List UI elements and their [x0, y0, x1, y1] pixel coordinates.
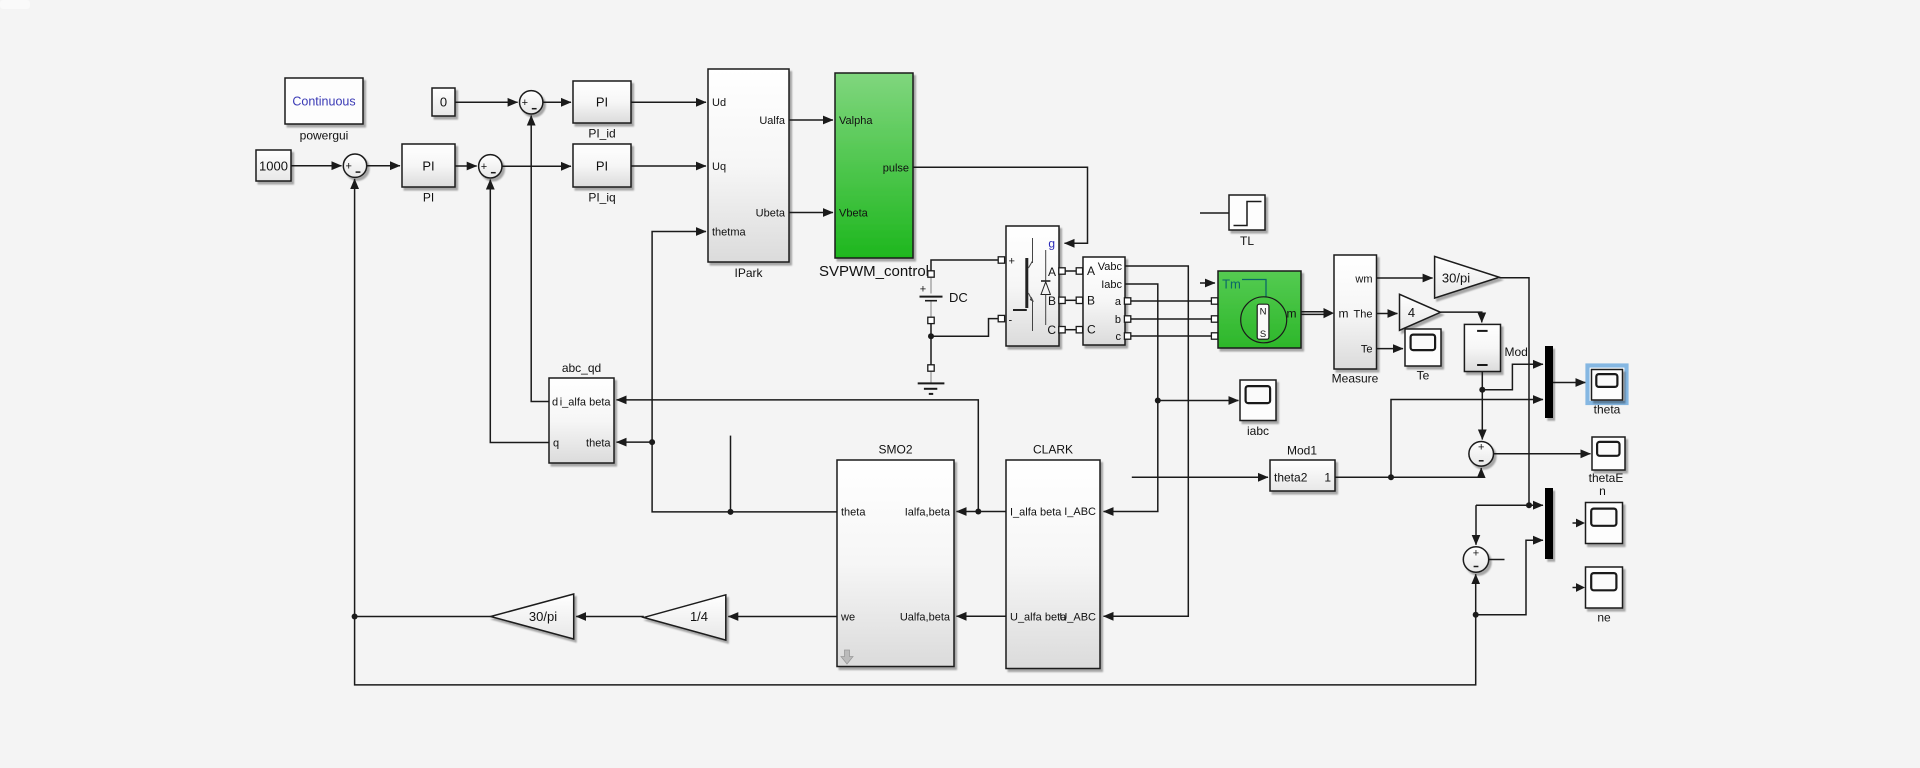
- wire SMO2 we to 1/4 gain: [728, 616, 837, 618]
- wire PI_id to IPark Ud: [631, 101, 706, 103]
- node Ialfa junction: [975, 509, 981, 515]
- constant block 0: [432, 88, 455, 116]
- PI block (speed): [402, 144, 455, 205]
- node ne feedback junction: [1473, 612, 1479, 618]
- svg-text:Valpha: Valpha: [839, 115, 873, 127]
- svg-text:0: 0: [440, 95, 447, 110]
- wire d feedback to id sum: [531, 116, 549, 402]
- scope thetaEn scope: [1592, 437, 1625, 470]
- port pad inverter B port: [1059, 297, 1065, 303]
- wire theta sum to thetaEn scope: [1494, 453, 1591, 455]
- svg-text:wm: wm: [1354, 274, 1372, 286]
- svg-text:1000: 1000: [259, 159, 288, 174]
- wire ne feedback to mux2 input2: [1476, 540, 1543, 615]
- svg-text:I_ABC: I_ABC: [1064, 506, 1096, 518]
- svg-text:30/pi: 30/pi: [1442, 270, 1470, 285]
- svg-text:+: +: [481, 161, 487, 173]
- svg-text:B: B: [1048, 294, 1056, 308]
- svg-text:C: C: [1047, 323, 1056, 337]
- wire n net to speed sum plus: [1475, 505, 1477, 545]
- svg-text:Continuous: Continuous: [292, 95, 355, 109]
- wire Tm input stub: [1200, 282, 1215, 284]
- wire DC plus to inverter plus: [931, 260, 998, 271]
- Measure block: [1332, 255, 1379, 386]
- wire SMO2 theta to IPark thetma: [652, 232, 837, 512]
- svg-text:1: 1: [1324, 471, 1331, 485]
- svg-text:Ialfa,beta: Ialfa,beta: [905, 507, 951, 519]
- svg-text:PI_id: PI_id: [588, 127, 615, 141]
- svg-text:-: -: [1009, 315, 1013, 327]
- wire 30/pi output down: [1499, 278, 1529, 504]
- wire IPark Ualfa to Valpha: [789, 119, 833, 121]
- node speed feedback junction: [352, 614, 358, 620]
- wire Mod output to theta sum: [1481, 372, 1483, 440]
- svg-text:theta: theta: [841, 507, 866, 519]
- svg-text:m: m: [1287, 307, 1297, 321]
- SMO2 observer block: [837, 443, 954, 667]
- svg-text:Ubeta: Ubeta: [756, 208, 786, 220]
- n scope floating input arrow: [1573, 522, 1577, 524]
- svg-text:CLARK: CLARK: [1033, 443, 1073, 457]
- gain 30/pi rpm: [1435, 256, 1500, 298]
- wire speed sum to PI: [367, 165, 400, 167]
- abc_qd block: [549, 361, 614, 463]
- port pad measurement C port: [1076, 327, 1082, 333]
- svg-text:+: +: [1009, 256, 1015, 268]
- PMSM motor block (green): [1218, 271, 1301, 348]
- svg-text:i_alfa beta: i_alfa beta: [560, 397, 612, 409]
- port pad inverter A port: [1059, 268, 1065, 274]
- node 30/pi junction: [1526, 502, 1532, 508]
- wire inverter C to measurement C: [1065, 329, 1076, 331]
- node theta junction: [649, 439, 655, 445]
- wire CLARK Ualfa to SMO2: [957, 615, 1007, 617]
- scope theta scope: [1592, 370, 1623, 417]
- svg-text:Ualfa: Ualfa: [759, 115, 786, 127]
- wire Iabc to CLARK I_ABC: [1104, 284, 1158, 512]
- wire phase c wire: [1131, 335, 1211, 337]
- svg-text:m: m: [1339, 307, 1349, 321]
- svg-text:The: The: [1354, 309, 1373, 321]
- svg-text:we: we: [840, 611, 855, 623]
- wire IPark Ubeta to Vbeta: [789, 212, 833, 214]
- svg-text:a: a: [1115, 296, 1122, 308]
- Mod block: [1464, 324, 1527, 371]
- IGBT/diode icon: [1013, 238, 1050, 331]
- svg-text:DC: DC: [949, 290, 968, 305]
- wire 1/4 to 30/pi gain: [576, 616, 644, 618]
- svg-text:c: c: [1116, 331, 1122, 343]
- svg-text:thetaE: thetaE: [1589, 471, 1624, 485]
- wire Mod1 input (dangling): [1132, 476, 1268, 478]
- svg-text:PI: PI: [596, 95, 608, 110]
- node Mod output junction: [1479, 387, 1485, 393]
- wire ne feedback up to speed sum minus: [1475, 574, 1477, 615]
- svg-text:PI: PI: [596, 159, 608, 174]
- node Iabc branch junction: [1155, 398, 1161, 404]
- wire pulse to gate g: [913, 167, 1088, 243]
- svg-text:theta2: theta2: [1274, 471, 1308, 485]
- svg-text:Measure: Measure: [1332, 372, 1379, 386]
- sum junction id error sum: [520, 91, 543, 114]
- port pad DC plus terminal: [928, 271, 934, 277]
- svg-text:Ud: Ud: [712, 97, 726, 109]
- ground symbol: [918, 371, 945, 394]
- wire speed feedback up to speed sum: [354, 179, 356, 617]
- wire Mod1 output to theta sum minus: [1335, 468, 1481, 477]
- CLARK transform block: [1006, 443, 1100, 669]
- svg-text:thetma: thetma: [712, 227, 747, 239]
- gain 1/4 gain: [644, 595, 726, 640]
- three-phase V-I measurement block: [1083, 257, 1125, 345]
- wire PI to iq sum: [455, 165, 477, 167]
- sum junction iq error sum: [479, 155, 502, 178]
- wire DC minus to inverter minus: [931, 319, 998, 337]
- wire theta stub (dangling): [730, 436, 732, 512]
- port pad motor B port: [1211, 316, 1217, 322]
- svg-text:N: N: [1260, 307, 1267, 318]
- svg-text:Mod1: Mod1: [1287, 444, 1317, 458]
- Mod1 block: [1270, 444, 1335, 492]
- svg-text:PI: PI: [423, 191, 434, 205]
- svg-text:iabc: iabc: [1247, 424, 1269, 438]
- svg-text:+: +: [522, 97, 528, 109]
- sum junction speed error sum: [343, 154, 366, 177]
- svg-text:C: C: [1087, 323, 1096, 337]
- wire TL output stub: [1200, 212, 1229, 214]
- wire Vabc to CLARK U_ABC: [1104, 266, 1189, 616]
- port pad inverter + port: [998, 257, 1004, 263]
- svg-text:Ualfa,beta: Ualfa,beta: [900, 611, 951, 623]
- wire Mod branch to mux1 input1: [1482, 364, 1543, 390]
- wire PI_iq to IPark Uq: [631, 165, 706, 167]
- wire iq sum to PI_iq: [502, 165, 571, 167]
- PI_id block: [573, 81, 631, 141]
- port pad inverter - port: [998, 315, 1004, 321]
- wire speed sum output stub: [1489, 559, 1505, 561]
- wire 0 to id sum: [455, 101, 518, 103]
- wire Te to Te scope: [1377, 348, 1404, 350]
- wire q feedback to iq sum: [490, 180, 549, 443]
- wire Iabc branch to iabc scope: [1158, 400, 1239, 402]
- wire estimated speed bottom feedback: [355, 617, 1476, 685]
- svg-text:abc_qd: abc_qd: [562, 361, 601, 375]
- wire phase b wire: [1131, 318, 1211, 320]
- motor m bus wire: [1301, 311, 1324, 313]
- svg-text:q: q: [553, 438, 559, 450]
- svg-text:Tm: Tm: [1222, 277, 1241, 292]
- svg-text:SVPWM_control: SVPWM_control: [819, 263, 929, 280]
- node Mod1 output junction: [1388, 474, 1394, 480]
- port pad motor C port: [1211, 333, 1217, 339]
- wire n net to mux2 input1: [1476, 504, 1543, 506]
- node theta stub junction: [728, 509, 734, 515]
- wire phase a wire: [1131, 300, 1211, 302]
- wire DC minus net: [930, 324, 932, 365]
- svg-text:A: A: [1048, 265, 1056, 279]
- svg-text:I_alfa beta: I_alfa beta: [1010, 507, 1062, 519]
- svg-text:pulse: pulse: [883, 162, 909, 174]
- svg-text:S: S: [1260, 329, 1266, 340]
- port pad measurement a port: [1124, 298, 1130, 304]
- svg-text:IPark: IPark: [734, 266, 763, 280]
- DC voltage source: [920, 277, 968, 317]
- scope ne scope: [1586, 567, 1623, 625]
- port pad motor A port: [1211, 298, 1217, 304]
- wire theta branch to abc_qd: [617, 441, 653, 443]
- inverter universal bridge: [1006, 226, 1059, 346]
- svg-text:A: A: [1087, 264, 1095, 278]
- port pad measurement B port: [1076, 297, 1082, 303]
- wire inverter A to measurement A: [1065, 270, 1076, 272]
- wire mux1 to theta scope: [1553, 382, 1586, 384]
- wire gain 4 to Mod: [1441, 312, 1482, 322]
- svg-text:theta: theta: [586, 438, 611, 450]
- wire The to gain 4: [1377, 313, 1398, 315]
- svg-text:SMO2: SMO2: [878, 443, 912, 457]
- svg-text:ne: ne: [1597, 611, 1611, 625]
- svg-text:4: 4: [1408, 305, 1415, 320]
- svg-text:theta: theta: [1594, 403, 1621, 417]
- wire 30/pi to speed feedback: [355, 616, 491, 618]
- svg-text:Te: Te: [1361, 344, 1373, 356]
- powergui block: [285, 78, 363, 143]
- wire CLARK Ialfa to SMO2: [957, 511, 1007, 513]
- svg-text:b: b: [1115, 314, 1121, 326]
- SVPWM_control block (green): [819, 73, 929, 280]
- svg-text:TL: TL: [1240, 234, 1254, 248]
- svg-text:PI: PI: [422, 159, 434, 174]
- svg-text:Vbeta: Vbeta: [839, 208, 869, 220]
- svg-text:PI_iq: PI_iq: [588, 191, 615, 205]
- svg-text:Iabc: Iabc: [1101, 279, 1122, 291]
- PI_iq block: [573, 144, 631, 205]
- gray down arrow icon: [841, 650, 853, 664]
- svg-text:+: +: [1478, 442, 1484, 454]
- port pad DC minus terminal: [928, 317, 934, 323]
- svg-text:Vabc: Vabc: [1098, 261, 1123, 273]
- constant block 1000: [256, 150, 291, 181]
- wire wm to 30/pi: [1377, 277, 1433, 279]
- port pad measurement c port: [1124, 333, 1130, 339]
- scope iabc scope: [1240, 380, 1276, 438]
- TL step source: [1229, 195, 1265, 248]
- svg-text:Mod: Mod: [1505, 345, 1528, 359]
- sum junction speed compare sum: [1463, 547, 1488, 572]
- svg-text:+: +: [920, 284, 926, 296]
- svg-text:+: +: [345, 161, 351, 173]
- IPark block U1: [708, 69, 789, 280]
- wire Ialfa branch to abc_qd: [617, 400, 979, 512]
- node DC minus junction: [928, 333, 934, 339]
- wire inverter B to measurement B: [1065, 299, 1076, 301]
- gain gain 4: [1400, 294, 1441, 330]
- theta scope selection highlight: [1588, 366, 1627, 404]
- svg-text:U_ABC: U_ABC: [1059, 611, 1096, 623]
- svg-text:g: g: [1048, 237, 1055, 251]
- svg-text:n: n: [1599, 484, 1606, 498]
- port pad ground terminal: [928, 365, 934, 371]
- faint toolbar remnant top-left: [0, 0, 30, 9]
- scope Te scope: [1405, 329, 1441, 383]
- svg-text:Te: Te: [1417, 369, 1430, 383]
- port pad measurement A port: [1076, 268, 1082, 274]
- port pad inverter C port: [1059, 327, 1065, 333]
- mux2: [1545, 488, 1553, 559]
- svg-text:+: +: [1473, 547, 1479, 559]
- scope n scope: [1586, 503, 1623, 544]
- svg-text:30/pi: 30/pi: [529, 609, 557, 624]
- svg-text:1/4: 1/4: [690, 609, 708, 624]
- svg-text:d: d: [552, 397, 558, 409]
- mux1: [1545, 346, 1553, 418]
- wire 1000 to speed sum: [291, 165, 342, 167]
- ne scope floating input arrow: [1573, 587, 1577, 589]
- svg-text:B: B: [1087, 293, 1095, 307]
- gain 30/pi rad gain: [491, 594, 574, 639]
- sum junction theta error sum: [1469, 442, 1494, 467]
- wire id sum to PI_id: [543, 101, 571, 103]
- svg-text:Uq: Uq: [712, 161, 726, 173]
- port pad measurement b port: [1124, 316, 1130, 322]
- svg-text:powergui: powergui: [300, 129, 349, 143]
- wire Mod1 branch to mux1 input2: [1391, 400, 1543, 478]
